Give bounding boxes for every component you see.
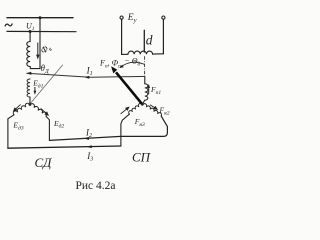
- svg-text:СП: СП: [132, 150, 152, 165]
- svg-text:СД: СД: [35, 155, 53, 170]
- svg-text:Рис 4.2а: Рис 4.2а: [76, 180, 116, 192]
- svg-text:d: d: [146, 33, 153, 48]
